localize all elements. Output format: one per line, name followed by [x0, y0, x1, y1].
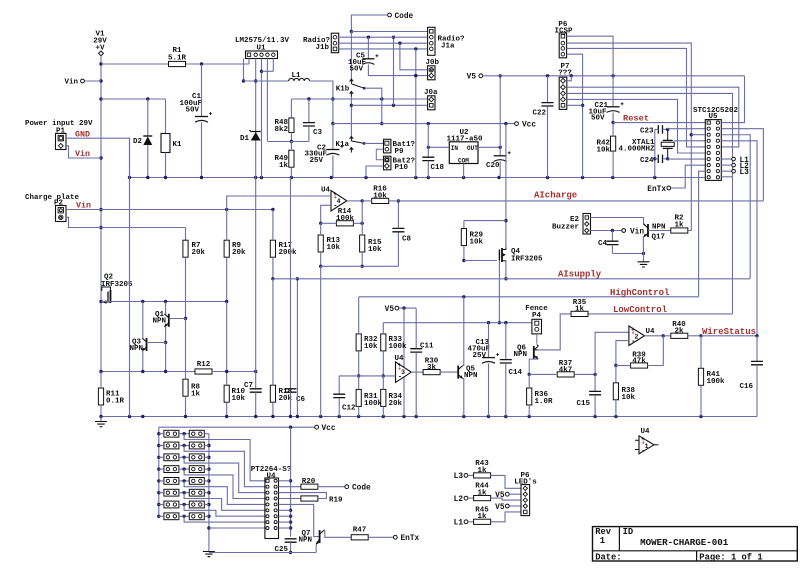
svg-text:NPN: NPN	[152, 318, 166, 326]
node R48 bottom	[290, 140, 293, 143]
resistor R12	[195, 369, 212, 374]
wire U1 pin2 / D1 column	[255, 59, 257, 136]
resistor R43	[468, 474, 474, 476]
node C4 top	[611, 229, 614, 232]
bottom ground rail	[101, 416, 757, 418]
node U4d out	[662, 334, 665, 337]
wire V5 to +in	[396, 308, 405, 366]
svg-text:25V: 25V	[309, 157, 323, 165]
svg-text:NPN: NPN	[464, 372, 478, 380]
svg-text:10k: 10k	[232, 395, 246, 403]
wire U2 IN	[428, 146, 449, 148]
wire R29 to Q4 gate	[464, 260, 497, 262]
svg-text:4.000MHZ: 4.000MHZ	[618, 145, 655, 153]
svg-text:L1: L1	[454, 520, 464, 528]
wire ICSP pin4 gnd	[567, 54, 583, 177]
svg-text:Vcc: Vcc	[322, 425, 336, 433]
wire P7 pin1 hook to V5	[567, 76, 572, 81]
wire U1 feedback x243.5	[243, 59, 245, 82]
wire C24 to U5 row7	[667, 158, 669, 160]
ground rail (middle GND bus)	[130, 177, 706, 179]
wire C23 to U5 row2	[668, 128, 706, 131]
svg-text:MOWER-CHARGE-001: MOWER-CHARGE-001	[640, 537, 729, 548]
wire P9 pin2 to P10 pin1	[376, 149, 383, 160]
wire U2 COM	[463, 164, 465, 178]
wire J1b pin1 line	[339, 36, 428, 38]
wire Code to J1a	[351, 15, 387, 32]
jumper row 3	[164, 454, 179, 461]
wire jumper row 2 to U4 pin	[184, 446, 265, 487]
wire R39 feedback	[648, 336, 664, 366]
wire gnd line y552.5	[209, 552, 316, 554]
svg-text:1k: 1k	[477, 513, 487, 521]
ground symbol Q17	[643, 254, 645, 262]
resistor R29	[461, 229, 466, 246]
resistor R31	[356, 389, 361, 406]
svg-text:C22: C22	[532, 109, 546, 117]
wire U1 pin1	[248, 59, 250, 65]
wire R20 to Code	[318, 486, 345, 488]
svg-text:WireStatus: WireStatus	[702, 327, 756, 337]
svg-text:20k: 20k	[192, 249, 206, 257]
wire R45 to P6	[491, 512, 521, 522]
svg-text:COM: COM	[458, 157, 469, 164]
svg-text:C4: C4	[598, 240, 608, 248]
resistor R15	[360, 235, 365, 252]
svg-text:C3: C3	[313, 129, 323, 137]
wire U5 row9L HighControl drop	[699, 171, 706, 297]
resistor R18	[270, 385, 275, 402]
svg-text:C14: C14	[509, 369, 523, 377]
wire jumper row 8 to U4 pin	[184, 516, 265, 522]
wire U4c power stub	[403, 377, 405, 417]
wire jumper row 1 to U4 pin	[184, 434, 265, 481]
wire jumper row 4 to U4 pin	[184, 469, 265, 498]
node R38 R39	[614, 364, 617, 367]
wire U4a -in	[321, 205, 331, 223]
node C8 top	[397, 199, 400, 202]
wire E2 pin3	[591, 230, 622, 232]
wire Vcc rail y123.6	[333, 123, 515, 125]
svg-text:EnTx: EnTx	[401, 535, 420, 543]
wire code line y31.5	[351, 31, 427, 33]
node R12 right	[254, 370, 257, 373]
node R37 right	[593, 373, 596, 376]
svg-text:10k: 10k	[373, 193, 387, 201]
svg-text:IRF3205: IRF3205	[101, 281, 133, 289]
wire U1 pin4 pin5	[266, 59, 268, 141]
svg-text:HighControl: HighControl	[610, 288, 670, 298]
svg-text:C12: C12	[342, 405, 356, 413]
node reset	[611, 121, 614, 124]
svg-text:10k: 10k	[470, 239, 484, 247]
svg-text:4k7: 4k7	[559, 366, 573, 374]
node R17 bottom / AIsupply left	[271, 277, 274, 280]
svg-text:U4: U4	[321, 187, 331, 195]
svg-text:LowControl: LowControl	[613, 305, 668, 315]
wire y301 node line	[101, 301, 227, 303]
wire U2 OUT	[478, 146, 500, 148]
resistor R9	[224, 240, 229, 257]
wire U5 row3R AIsupply drop	[721, 135, 750, 279]
wire U5 row10R to LowControl column	[721, 176, 732, 178]
wire Q6 base	[534, 349, 538, 351]
svg-text:3k: 3k	[427, 364, 437, 372]
svg-text:Code: Code	[395, 13, 414, 21]
connector J1a	[428, 27, 435, 55]
svg-text:C16: C16	[739, 383, 753, 391]
wire Q7 emitter	[315, 545, 317, 553]
resistor R7	[183, 240, 188, 257]
resistor R39	[631, 363, 648, 368]
terminal EnTx (bottom)	[393, 535, 397, 539]
wire J0b pin1 hook	[400, 43, 428, 70]
node Q6 emitter R36 R37	[528, 373, 531, 376]
svg-text:100k: 100k	[336, 215, 355, 223]
svg-text:R47: R47	[353, 527, 367, 535]
node Q2 source	[99, 300, 102, 303]
svg-text:-: -	[631, 338, 635, 346]
resistor R11	[98, 388, 103, 405]
svg-text:1.0R: 1.0R	[535, 398, 554, 406]
svg-text:1k: 1k	[477, 467, 487, 475]
resistor R45	[468, 521, 474, 523]
terminal Vcc (bottom)	[315, 425, 319, 429]
ground symbol matrix	[203, 552, 215, 557]
terminal L1 (U5)	[721, 158, 731, 160]
svg-text:Vin: Vin	[64, 79, 78, 87]
wire R37 to U4d +in	[595, 332, 629, 374]
svg-text:K1b: K1b	[336, 86, 350, 94]
jumper row 5	[164, 478, 179, 485]
wire K1 top	[165, 99, 167, 134]
svg-text:100k: 100k	[389, 343, 408, 351]
wire P7 pin2 to U5	[567, 87, 739, 147]
svg-text:C8: C8	[402, 236, 412, 244]
svg-text:R19: R19	[329, 497, 343, 505]
wire Q4 gate down	[498, 261, 500, 323]
svg-text:Q17: Q17	[652, 234, 666, 242]
wire Q7 collector to R47	[324, 530, 351, 537]
wire jumper row 3 to U4 pin	[184, 457, 265, 492]
svg-text:1: 1	[600, 536, 605, 546]
svg-text:2k: 2k	[674, 327, 684, 335]
wire Q5 emitter	[463, 379, 464, 417]
wire crystal right to U5 row4	[674, 140, 705, 142]
svg-text:P4: P4	[532, 312, 542, 320]
resistor R2	[671, 228, 688, 233]
relay coil K1	[161, 134, 170, 153]
wire P1 GND	[66, 138, 130, 177]
wire xtal gnd column	[654, 129, 656, 177]
svg-text:J1a: J1a	[441, 43, 455, 51]
svg-text:V5: V5	[385, 306, 395, 314]
wire U4 pinR to vcc	[279, 509, 291, 511]
resistor R47	[351, 535, 368, 540]
resistor R32	[356, 334, 361, 351]
wire U4a +in	[227, 196, 331, 210]
svg-text:L3: L3	[740, 169, 750, 177]
svg-text:C18: C18	[431, 164, 445, 172]
wire U4c out	[411, 371, 423, 373]
wire jumper row 6 to U4 pin	[184, 493, 265, 511]
wire R29 top hook	[464, 220, 506, 222]
jumper row 1	[164, 430, 179, 437]
svg-text:Vcc: Vcc	[522, 121, 536, 129]
wire Vcc feed line	[159, 426, 315, 428]
resistor R34	[381, 389, 386, 406]
wire U4 pinR to vcc	[279, 515, 291, 517]
jumper row 8	[164, 513, 179, 520]
wire R43 to P6	[491, 475, 521, 488]
svg-text:Buzzer: Buzzer	[552, 224, 579, 232]
wire P7 pin3 LowControl drop	[567, 93, 733, 314]
svg-text:Date:: Date:	[595, 552, 621, 562]
wire P2 pin1 Vin line	[66, 209, 273, 211]
wire EnTx to U5	[671, 165, 706, 188]
wire WireStatus	[701, 335, 757, 337]
resistor R14	[336, 221, 353, 226]
resistor R8	[183, 379, 188, 396]
wire U5 row4R WireStatus drop	[721, 141, 757, 336]
wire P7 pin4 to U5	[567, 99, 706, 153]
svg-text:Code: Code	[352, 485, 371, 493]
wire jumper row 5 to U4 pin	[184, 481, 265, 505]
wire R30 to Q5 base	[440, 371, 458, 373]
terminal L2 (U5)	[721, 164, 731, 166]
jumper row 4	[164, 466, 179, 473]
wire P7 pin5	[567, 104, 583, 106]
wire U5 row1R to V5	[721, 76, 744, 123]
svg-text:AIcharge: AIcharge	[534, 190, 577, 200]
svg-text:D2: D2	[133, 138, 143, 146]
wire y105 to J0a	[351, 104, 427, 106]
svg-text:10k: 10k	[596, 147, 610, 155]
wire +V vertical main	[100, 56, 102, 287]
terminal Code (bottom)	[345, 485, 349, 489]
svg-text:50V: 50V	[591, 115, 605, 123]
wire AIsupply line	[273, 278, 750, 280]
wire Q4 source to AIsupply	[505, 261, 507, 279]
resistor R19	[279, 498, 301, 500]
wire Q5 collector	[463, 297, 464, 366]
connector P9 Bat1	[384, 139, 391, 153]
svg-text:NPN: NPN	[299, 537, 313, 545]
terminal Code (top)	[388, 13, 392, 17]
svg-text:C20: C20	[486, 162, 500, 170]
wire Vcc drop to Q4	[505, 124, 507, 248]
wire J0a pin1	[427, 98, 429, 100]
wire Q17 base to R2	[648, 230, 671, 232]
svg-text:8k2: 8k2	[274, 126, 288, 134]
svg-text:P9: P9	[395, 148, 405, 156]
resistor R17	[270, 240, 275, 257]
svg-text:C15: C15	[576, 400, 590, 408]
wire y141 feedback line	[267, 141, 309, 143]
svg-text:L3: L3	[454, 473, 464, 481]
svg-text:1k: 1k	[575, 306, 585, 314]
resistor R44	[468, 497, 474, 499]
wire x415 gnd drop	[415, 49, 417, 178]
wire K1b pole out	[364, 88, 382, 99]
jumper row 6	[164, 489, 179, 496]
wire U4 pinR to vcc	[279, 521, 291, 523]
svg-text:U4: U4	[646, 328, 656, 336]
wire P1 Vin pin2	[66, 146, 101, 158]
svg-text:20k: 20k	[389, 400, 403, 408]
svg-text:200k: 200k	[279, 249, 298, 257]
wire U4a out	[347, 200, 362, 202]
svg-text:NPN: NPN	[513, 351, 527, 359]
wire C4 to emitter	[612, 253, 643, 255]
resistor R42	[611, 136, 616, 151]
wire L1 out	[310, 81, 333, 124]
svg-text:AIsupply: AIsupply	[558, 270, 602, 280]
wire x351 relay common	[350, 32, 352, 79]
svg-text:V5: V5	[495, 504, 505, 512]
wire jumper row 7 to U4 pin	[184, 505, 265, 517]
resistor R33	[381, 334, 386, 351]
wire U4c -in line	[339, 375, 395, 377]
svg-text:50V: 50V	[349, 66, 363, 74]
wire U4d out	[645, 335, 664, 337]
wire Vcc column x290	[290, 427, 292, 536]
svg-text:1k: 1k	[477, 490, 487, 498]
node Q17 emitter	[642, 252, 645, 255]
wire V5 rail	[483, 75, 745, 77]
resistor R36	[527, 388, 532, 405]
wire ICSP pin2 bundle	[567, 43, 692, 230]
wire P2 pin2 line to R7	[66, 217, 186, 227]
connector P10 Bat2	[384, 156, 391, 170]
svg-text:47k: 47k	[632, 358, 646, 366]
wire R1 to C1/U1	[186, 63, 249, 65]
resistor R20	[279, 486, 301, 488]
svg-text:R12: R12	[197, 361, 211, 369]
node WireStatus right	[755, 334, 758, 337]
wire HighControl line	[359, 296, 699, 298]
svg-text:???: ???	[558, 70, 572, 78]
resistor R49	[289, 150, 294, 167]
wire U5 row3L hook	[691, 134, 705, 136]
wire to R1	[101, 63, 168, 65]
resistor R40	[671, 333, 688, 338]
svg-text:V5: V5	[467, 74, 477, 82]
wire K1b common down	[350, 97, 352, 137]
wire P10 pin2 to gnd rail	[366, 166, 384, 178]
svg-text:25V: 25V	[472, 352, 486, 360]
node R29 bottom / Q4 gate	[462, 259, 465, 262]
node Q3 base	[164, 341, 167, 344]
wire J1b pin3 line	[339, 48, 428, 50]
wire R44 to P6	[491, 498, 521, 500]
resistor R35	[571, 311, 588, 316]
wire V5 node	[399, 307, 416, 309]
resistor R30	[423, 370, 440, 375]
wire ICSP pin1 to V5	[567, 36, 614, 76]
resistor R1	[169, 61, 186, 66]
svg-text:20k: 20k	[232, 249, 246, 257]
jumper row 7	[164, 501, 179, 508]
ground symbol bottom-left	[100, 417, 102, 422]
svg-text:-: -	[398, 374, 402, 382]
wire P4 pin2 to Q6	[536, 334, 538, 344]
svg-text:L2: L2	[454, 496, 464, 504]
node code junction	[350, 30, 353, 33]
node Q1 base	[184, 317, 187, 320]
svg-text:C23: C23	[640, 127, 654, 135]
svg-text:1k: 1k	[191, 391, 201, 399]
svg-text:10k: 10k	[622, 394, 636, 402]
terminal L3 (U5)	[721, 170, 731, 172]
resistor R16	[372, 198, 389, 203]
wire V5/fence line y322.7	[383, 322, 532, 324]
svg-text:Vin: Vin	[630, 228, 644, 236]
svg-text:C24: C24	[640, 157, 654, 165]
svg-text:IN: IN	[451, 145, 459, 152]
svg-text:EnTx: EnTx	[647, 186, 666, 194]
wire R19 hook to pin3	[279, 493, 327, 499]
svg-text:1k: 1k	[674, 222, 684, 230]
wire matrix left rail	[158, 427, 160, 516]
svg-text:Charge plate: Charge plate	[25, 194, 80, 202]
svg-text:0.1R: 0.1R	[106, 398, 125, 406]
resistor R38	[613, 383, 618, 400]
svg-text:OUT: OUT	[467, 145, 478, 152]
svg-text:U4: U4	[640, 428, 650, 436]
node Q4 AIsupply	[504, 277, 507, 280]
wire y99 to D2/K1	[101, 98, 166, 100]
svg-text:V5: V5	[495, 492, 505, 500]
svg-text:10k: 10k	[327, 244, 341, 252]
svg-text:NPN: NPN	[129, 345, 143, 353]
terminal Vcc	[515, 122, 519, 126]
node R41 top	[699, 334, 702, 337]
wire U4 pin5R to Q7 base	[279, 504, 320, 536]
svg-text:100k: 100k	[364, 400, 383, 408]
wire R12 line y371.5	[101, 371, 195, 373]
wire GND P1 drop x129	[129, 138, 131, 416]
wire E2 pin1 to Q17 collector	[591, 218, 644, 224]
wire x297 GND drop	[296, 279, 298, 417]
node C24 right	[666, 157, 669, 160]
svg-text:K1: K1	[173, 141, 183, 149]
wire Vin	[85, 80, 102, 82]
svg-text:J1b: J1b	[315, 44, 329, 52]
wire ICSP pin3 bundle	[567, 48, 706, 146]
wire C5 bottom to gnd column	[368, 65, 427, 76]
svg-text:50V: 50V	[185, 107, 199, 115]
svg-text:IRF3205: IRF3205	[511, 256, 543, 264]
wire Reset to U5 pin1	[613, 122, 705, 124]
resistor R48	[289, 118, 294, 133]
resistor R10	[224, 385, 229, 402]
svg-text:10k: 10k	[364, 343, 378, 351]
wire y99 feedback rail	[291, 98, 427, 100]
wire Q6 emitter	[529, 359, 538, 374]
svg-text:10k: 10k	[368, 246, 382, 254]
wire x393 up to radio line	[393, 37, 395, 105]
wire R47 to EnTx	[368, 536, 393, 538]
wire x381 to vcc rail	[381, 99, 383, 124]
wire gnd to U4 pin9	[209, 527, 265, 529]
node main rail y64	[99, 62, 102, 65]
wire AIcharge line	[398, 200, 763, 202]
svg-text:D1: D1	[240, 135, 250, 143]
terminal Vin (Q17)	[622, 229, 626, 233]
svg-text:ID: ID	[623, 527, 634, 537]
svg-text:Page: 1 of 1: Page: 1 of 1	[699, 552, 762, 562]
